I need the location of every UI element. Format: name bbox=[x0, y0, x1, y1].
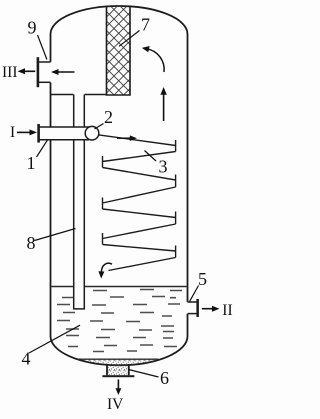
label 5 + pointer bbox=[189, 269, 207, 302]
arrow II (points right) bbox=[202, 306, 220, 312]
arrow IV (points down) bbox=[116, 380, 122, 396]
feed pipe 1 bbox=[40, 127, 90, 140]
svg-text:4: 4 bbox=[22, 349, 31, 369]
vessel shell bbox=[50, 6, 187, 365]
right wall below nozzle 5 bbox=[187, 314, 189, 337]
label 2 + pointer bbox=[95, 107, 114, 129]
svg-text:9: 9 bbox=[28, 18, 37, 38]
bottom head bbox=[50, 336, 187, 365]
label 3 + pointer bbox=[145, 151, 168, 177]
svg-text:III: III bbox=[2, 64, 18, 81]
label 8 + pointer bbox=[27, 229, 76, 254]
packing section 7 (crosshatched demister) bbox=[107, 7, 131, 95]
arrow I (inlet, points right) bbox=[17, 129, 37, 135]
flange of pipe 1 bbox=[37, 124, 40, 143]
label 9 + pointer bbox=[28, 18, 47, 60]
label 6 + pointer bbox=[129, 368, 170, 388]
svg-text:8: 8 bbox=[27, 233, 36, 253]
svg-text:1: 1 bbox=[27, 153, 36, 173]
label 1 + pointer bbox=[27, 140, 48, 173]
arrow inside nozzle III (points left) bbox=[51, 69, 75, 75]
small right arrow after nozzle 2 bbox=[117, 135, 137, 141]
curved arrow at bottom of zigzag (points down) bbox=[98, 263, 112, 278]
left wall below nozzle III bbox=[50, 83, 52, 337]
arrow III outer (points left) bbox=[18, 68, 36, 74]
dip pipe 8 bbox=[73, 95, 85, 310]
nozzle 9 / outlet III bbox=[37, 57, 51, 87]
partition tray under packing bbox=[51, 94, 107, 96]
liquid surface bbox=[52, 286, 187, 288]
svg-text:2: 2 bbox=[104, 107, 113, 127]
svg-text:7: 7 bbox=[141, 15, 150, 35]
svg-text:II: II bbox=[222, 302, 232, 319]
liquid dashes bbox=[57, 290, 182, 352]
nozzle 5 / outlet II bbox=[188, 299, 199, 317]
up arrow (gas flow, right side) bbox=[160, 87, 166, 121]
svg-text:5: 5 bbox=[198, 269, 207, 289]
svg-text:6: 6 bbox=[160, 368, 169, 388]
svg-text:IV: IV bbox=[107, 396, 124, 413]
dome and upper walls bbox=[51, 6, 188, 302]
svg-text:I: I bbox=[10, 124, 15, 141]
label 7 + pointer bbox=[119, 15, 150, 47]
svg-text:3: 3 bbox=[159, 157, 168, 177]
spray nozzle 2 (circle) bbox=[85, 126, 99, 140]
sediment band (stippled, above bottom head) bbox=[79, 359, 159, 364]
curved arrow at top (points left) bbox=[142, 46, 164, 72]
label 4 + pointer bbox=[22, 325, 81, 368]
zigzag baffles 3 bbox=[98, 135, 176, 271]
outlet 6 (stippled neck) bbox=[102, 365, 134, 377]
